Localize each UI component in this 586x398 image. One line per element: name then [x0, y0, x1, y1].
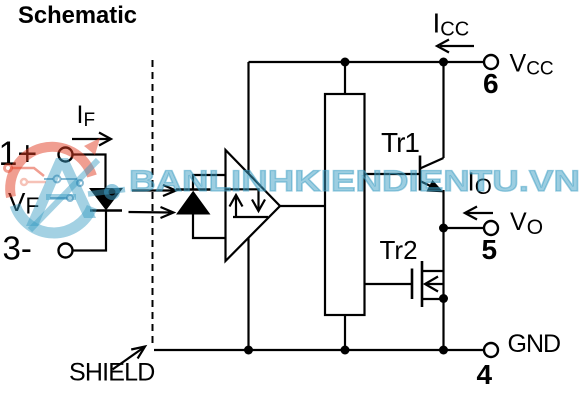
node top rail / block	[341, 58, 350, 67]
svg-text:Schematic: Schematic	[18, 2, 137, 29]
light arrow 2	[129, 207, 174, 218]
wire amp output	[280, 205, 325, 207]
wire VO	[444, 227, 485, 229]
pin 5 terminal	[484, 221, 498, 235]
wire block top	[344, 62, 346, 94]
pin 4 terminal	[484, 343, 498, 357]
watermark logo	[5, 138, 126, 233]
wire Tr1 collector	[442, 62, 444, 158]
LED	[90, 189, 122, 211]
svg-text:3-: 3-	[3, 230, 32, 267]
shield dashed line	[152, 60, 154, 348]
driver block	[325, 94, 365, 315]
pin 6 terminal	[484, 55, 498, 69]
svg-text:ICC: ICC	[433, 8, 470, 41]
wire Tr1 emitter / output vertical	[442, 190, 444, 350]
svg-text:VO: VO	[510, 208, 543, 239]
svg-text:VCC: VCC	[510, 50, 554, 80]
wire Tr2 gate	[365, 283, 412, 285]
wire block bottom	[344, 315, 346, 350]
pin 3 terminal	[59, 244, 73, 258]
wire top rail	[249, 61, 485, 63]
node bottom rail / left vertical	[244, 346, 253, 355]
arrow IF	[72, 133, 111, 146]
wire cathode input	[73, 211, 107, 251]
svg-text:4: 4	[477, 359, 493, 390]
node VO junction	[439, 224, 448, 233]
wire photodiode cathode	[193, 175, 226, 190]
node top rail / collector	[439, 58, 448, 67]
svg-text:6: 6	[483, 68, 499, 99]
svg-text:IF: IF	[77, 101, 96, 131]
arrow ICC	[437, 40, 474, 53]
transistor Tr2	[412, 261, 444, 307]
wire photodiode anode	[193, 214, 226, 238]
node bottom rail / block	[341, 346, 350, 355]
light arrow 1	[132, 185, 176, 196]
svg-text:5: 5	[482, 234, 498, 265]
photodiode	[176, 190, 211, 215]
svg-text:SHIELD: SHIELD	[69, 359, 155, 387]
svg-text:Tr1: Tr1	[381, 127, 419, 158]
wire left vertical	[247, 62, 249, 350]
arrow VO	[465, 207, 493, 220]
arrow SHIELD	[113, 347, 145, 370]
amp internal up arrow	[230, 195, 269, 217]
node Tr2 source	[439, 294, 448, 303]
svg-text:Tr2: Tr2	[380, 235, 418, 265]
wire Tr1 base	[365, 173, 421, 175]
wire anode input	[73, 155, 106, 189]
node bottom rail / output	[439, 346, 448, 355]
pin 1 terminal	[59, 148, 73, 162]
wire bottom rail	[154, 349, 484, 351]
transistor Tr1	[420, 156, 444, 192]
op-amp U1	[226, 150, 281, 261]
amp internal down arrow	[226, 189, 265, 211]
svg-text:BANLINHKIENDIENTU.VN: BANLINHKIENDIENTU.VN	[129, 165, 580, 198]
svg-text:GND: GND	[508, 330, 561, 358]
